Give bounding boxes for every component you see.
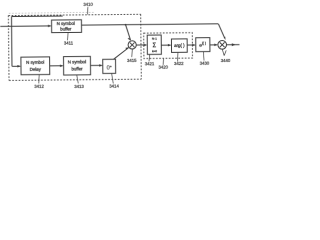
multiplier 3440 <box>218 40 227 49</box>
svg-text:3414: 3414 <box>109 84 119 89</box>
node input junction <box>11 17 13 27</box>
svg-text:3440: 3440 <box>221 58 231 63</box>
svg-text:Delay: Delay <box>30 67 42 72</box>
block exponential 3430 <box>196 38 210 52</box>
dashed box 3410 <box>9 11 95 14</box>
svg-text:3415: 3415 <box>127 58 137 63</box>
wire 3413 to 3414 <box>90 64 101 66</box>
dashed box 3420 <box>144 33 193 59</box>
svg-text:()*: ()* <box>107 64 112 70</box>
wire 3415 to 3421 <box>136 44 146 46</box>
wire 3421 to 3422 <box>161 44 170 46</box>
wire 3430 to 3440 <box>210 44 217 46</box>
svg-text:buffer: buffer <box>71 66 83 71</box>
svg-text:3422: 3422 <box>174 61 184 66</box>
wire diagonal junction to multiplier 3415 <box>126 25 131 40</box>
svg-text:3421: 3421 <box>145 61 155 66</box>
svg-text:3420: 3420 <box>158 65 168 70</box>
svg-text:arg( ): arg( ) <box>174 43 185 48</box>
node junction dot <box>125 24 127 26</box>
svg-text:N-1: N-1 <box>152 37 157 41</box>
svg-text:3430: 3430 <box>200 61 210 66</box>
svg-text:N symbol: N symbol <box>26 60 44 65</box>
block N symbol delay 3412 <box>21 57 50 75</box>
svg-text:buffer: buffer <box>60 26 72 31</box>
svg-text:N symbol: N symbol <box>57 21 75 26</box>
svg-text:3411: 3411 <box>64 41 74 46</box>
svg-text:k=0: k=0 <box>152 49 157 53</box>
wire 3412 to 3413 <box>50 65 63 67</box>
svg-text:N symbol: N symbol <box>68 60 86 65</box>
wire 3422 to 3430 <box>187 44 194 46</box>
svg-text:j( ): j( ) <box>201 41 206 45</box>
block accumulator 3421 <box>147 35 161 54</box>
wire input <box>0 25 50 27</box>
wire 3411 output long line <box>81 24 218 25</box>
wire junction down to delay <box>11 26 13 66</box>
wire bypass diagonal into multiplier 3440 <box>218 24 224 39</box>
block N symbol buffer 3413 <box>63 56 90 75</box>
svg-text:3410: 3410 <box>83 2 93 7</box>
wire output <box>226 44 239 46</box>
svg-text:3412: 3412 <box>34 84 44 89</box>
wire conjugator to multiplier 3415 <box>114 48 129 59</box>
block arg 3422 <box>171 39 187 53</box>
svg-text:3413: 3413 <box>74 84 84 89</box>
block N symbol buffer 3411 <box>52 20 82 33</box>
block conjugator 3414 <box>103 59 116 73</box>
multiplier 3415 <box>128 41 136 49</box>
